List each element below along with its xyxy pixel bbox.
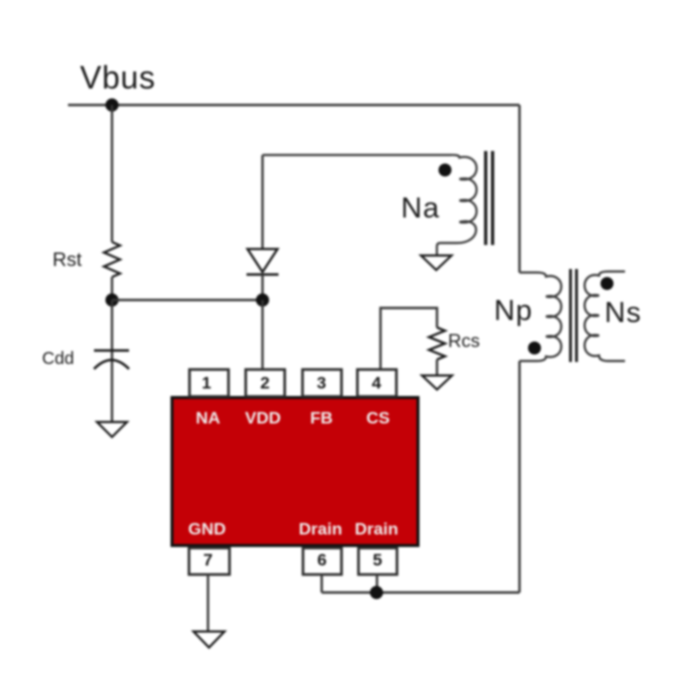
ground symbol (Na) bbox=[421, 256, 452, 271]
wire diode anode up bbox=[261, 155, 263, 249]
wire Np bottom to drain bus bbox=[518, 361, 520, 593]
wire diode cathode down bbox=[261, 275, 263, 301]
capacitor Cdd bbox=[94, 351, 129, 370]
wire node A down to Cdd bbox=[111, 300, 113, 422]
wire pin 6 down to drain bus bbox=[321, 575, 323, 593]
wire Vbus rail down to Np bbox=[518, 105, 520, 273]
svg-text:Drain: Drain bbox=[299, 520, 342, 539]
resistor Rst bbox=[104, 242, 120, 277]
core Na aux transformer bbox=[486, 151, 493, 245]
wire Rcs to ground bbox=[436, 360, 438, 376]
svg-text:Na: Na bbox=[401, 193, 440, 225]
svg-text:Np: Np bbox=[494, 295, 533, 327]
ground symbol (Cdd) bbox=[97, 422, 127, 437]
transformer secondary winding Ns bbox=[585, 272, 625, 362]
pin 2 box bbox=[246, 370, 285, 397]
inductor Na auxiliary winding bbox=[263, 155, 477, 256]
wire node to VDD pin 2 bbox=[261, 300, 263, 370]
pin 7 box bbox=[189, 548, 230, 575]
junction drain bus bbox=[370, 586, 383, 599]
pin 4 box bbox=[357, 370, 396, 397]
polarity dot Ns bbox=[601, 277, 614, 290]
svg-text:Vbus: Vbus bbox=[80, 60, 156, 96]
svg-text:5: 5 bbox=[373, 551, 382, 570]
diode D1 bbox=[247, 249, 279, 275]
svg-text:Rcs: Rcs bbox=[448, 330, 480, 351]
pin 1 box bbox=[190, 370, 229, 397]
wire node A to diode cathode node bbox=[112, 299, 263, 301]
svg-text:2: 2 bbox=[260, 374, 269, 393]
svg-text:6: 6 bbox=[317, 551, 326, 570]
ground symbol (Rcs) bbox=[422, 376, 452, 390]
svg-text:FB: FB bbox=[310, 409, 333, 428]
svg-text:GND: GND bbox=[188, 520, 226, 539]
svg-text:7: 7 bbox=[203, 551, 212, 570]
junction Vbus/Rst bbox=[105, 98, 118, 111]
svg-text:Cdd: Cdd bbox=[42, 348, 74, 368]
polarity dot Np bbox=[528, 342, 541, 355]
svg-text:3: 3 bbox=[317, 374, 326, 393]
pin 3 box bbox=[303, 370, 342, 397]
wire CS pin 4 to Rcs bbox=[381, 308, 438, 370]
wire pin 5 down to drain bus bbox=[376, 575, 378, 593]
svg-text:Rst: Rst bbox=[53, 249, 83, 271]
svg-text:NA: NA bbox=[196, 409, 221, 428]
wire Vbus horizontal rail bbox=[68, 104, 520, 106]
pin 6 box bbox=[303, 548, 342, 575]
junction diode/VDD node bbox=[256, 293, 269, 306]
svg-text:Drain: Drain bbox=[355, 520, 398, 539]
wire GND pin 7 to ground bbox=[207, 575, 209, 632]
wire Rst to node A bbox=[111, 277, 113, 300]
svg-text:CS: CS bbox=[366, 409, 390, 428]
ground symbol (pin 7) bbox=[194, 632, 225, 648]
svg-text:Ns: Ns bbox=[605, 297, 642, 329]
svg-text:1: 1 bbox=[202, 374, 211, 393]
IC U1 body bbox=[172, 398, 418, 546]
resistor Rcs bbox=[429, 328, 445, 360]
transformer primary winding Np bbox=[520, 273, 562, 362]
svg-text:VDD: VDD bbox=[245, 409, 281, 428]
wire drain bus horizontal bbox=[322, 591, 520, 593]
transformer core bbox=[571, 269, 577, 362]
wire Vbus down to Rst bbox=[111, 105, 113, 242]
junction node A (Rst/Cdd) bbox=[105, 293, 118, 306]
pin 5 box bbox=[359, 548, 398, 575]
svg-text:4: 4 bbox=[372, 374, 382, 393]
polarity dot Na bbox=[439, 164, 452, 177]
